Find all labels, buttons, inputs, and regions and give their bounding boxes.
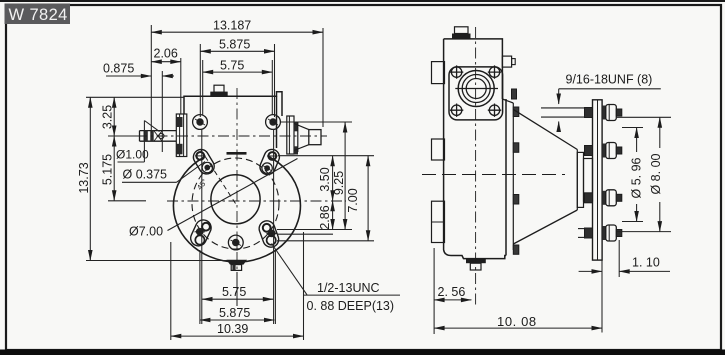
svg-text:0. 88 DEEP(13): 0. 88 DEEP(13) (307, 299, 395, 313)
flange bolt 2 y=150.5 (585, 143, 622, 159)
svg-text:10.39: 10.39 (217, 322, 248, 336)
UL boss bolt washer (202, 162, 212, 172)
rear rim line (512, 103, 514, 250)
dim 5.75 line (203, 71, 273, 73)
svg-text:1. 10: 1. 10 (632, 256, 660, 270)
label 0.375 underline and leader (122, 181, 177, 183)
svg-text:7.00: 7.00 (346, 188, 360, 212)
svg-text:5.75: 5.75 (220, 59, 244, 73)
svg-text:0.875: 0.875 (103, 62, 134, 76)
small right tab (512, 89, 517, 99)
dim 10.39 (171, 335, 304, 337)
side horizontal center line (422, 174, 565, 176)
side vertical center line (475, 27, 477, 306)
dim 5.75 bottom (202, 298, 273, 300)
bolt circle dashed (192, 158, 279, 249)
right top nub (502, 56, 511, 67)
ext lines 5.875 (199, 44, 201, 117)
svg-text:9.25: 9.25 (332, 171, 346, 195)
top-right bolt (269, 118, 276, 125)
dim dia 5.96 (636, 128, 638, 153)
flange outer ellipse (gap at top between bosses) (173, 157, 300, 263)
breather base front (210, 92, 227, 97)
side body outline (444, 39, 506, 259)
right plate dark bottom (294, 146, 298, 154)
dim 7.00 (367, 156, 369, 241)
top-left bolt (196, 118, 203, 125)
dim 10.08 (434, 327, 602, 329)
UR boss small hole (268, 152, 276, 160)
flange bolt 3 y=197.8 (585, 190, 622, 206)
label 1.00 underline and riser (118, 161, 145, 163)
right plate dark top (294, 123, 298, 132)
svg-text:13.187: 13.187 (213, 19, 251, 33)
UL boss small hole (196, 152, 204, 160)
svg-text:Ø1.00: Ø1.00 (116, 148, 149, 162)
breather cap front (214, 85, 224, 92)
45deg dashed diagonal (199, 147, 236, 204)
rim bolt tabs (513, 107, 519, 117)
bolt axis lines (201, 129, 203, 324)
ext lines 5.75 (202, 60, 204, 115)
side breather base (452, 34, 471, 39)
right shaft taper neck (294, 122, 309, 152)
LL washer bolt (195, 235, 204, 244)
center bore (211, 175, 260, 224)
svg-text:Ø 5. 96: Ø 5. 96 (629, 157, 643, 198)
9/16 down leader (558, 89, 560, 104)
side ext y=219 (622, 221, 643, 223)
left shaft small circle (159, 133, 164, 138)
bottom stud lines (578, 228, 585, 230)
svg-text:Ø 0.375: Ø 0.375 (123, 168, 168, 182)
side front flange square (449, 67, 503, 120)
top stud lines (541, 107, 585, 109)
dim 0.875 right segment (162, 75, 174, 77)
center line below plug (236, 272, 238, 306)
top scan edge (0, 0, 725, 2)
side ext y=130.3 (622, 127, 643, 129)
flange square bolts (450, 65, 501, 117)
upper-right slotted boss (258, 147, 282, 177)
left bearing flange plate (176, 114, 187, 157)
bottom center bolt washer (228, 235, 243, 250)
svg-text:10. 08: 10. 08 (497, 314, 537, 329)
ext x=619.2 (618, 240, 620, 277)
dim 13.187 line (151, 31, 323, 33)
right ext y=155.7 (278, 155, 374, 157)
bottom ext x=303.5 (303, 232, 305, 340)
dim 9.25 (344, 122, 346, 230)
svg-text:2.86: 2.86 (318, 205, 332, 229)
svg-text:Ø 8. 00: Ø 8. 00 (649, 153, 663, 194)
ext line x=323 right end (322, 28, 324, 127)
dim 1.10 (579, 270, 602, 272)
dim 2.06 line (151, 61, 181, 63)
LR boss ring hole (263, 224, 271, 232)
svg-text:3.50: 3.50 (318, 167, 332, 191)
upper-left slotted boss (191, 147, 217, 177)
dim 3.25 (113, 97, 115, 136)
ext y=136 left (108, 135, 140, 137)
cone upper (513, 109, 577, 149)
side ext y=231.6 (617, 231, 671, 233)
left tab 3 (432, 201, 445, 242)
dim 2.86 (332, 201, 334, 230)
cone lower (513, 210, 577, 244)
bottom black strip (0, 350, 725, 355)
svg-text:1/2-13UNC: 1/2-13UNC (317, 281, 380, 295)
9/16 up leader (558, 122, 560, 130)
UR boss bolt washer (262, 163, 272, 173)
lower-right slotted boss (257, 219, 281, 250)
right ext y=122 (281, 121, 352, 123)
rear flange plate (593, 100, 603, 260)
hub (577, 152, 583, 207)
flange bolt 4 y=233 (585, 225, 622, 241)
top-right bolt washer (266, 115, 281, 130)
right shaft end block (309, 130, 321, 145)
ext line 2.06 right (180, 58, 182, 114)
leader 1/2-13UNC (272, 244, 308, 295)
LL boss dark bolt (196, 228, 204, 236)
side breather cap (455, 27, 469, 34)
front horizontal main center line (167, 200, 346, 202)
leader dia 7.00 (168, 159, 298, 231)
dim 5.875 line (200, 50, 274, 52)
top-left bolt washer (193, 115, 208, 130)
left shaft (140, 130, 177, 132)
right bearing flange plate (287, 116, 294, 154)
svg-text:W 7824: W 7824 (9, 6, 68, 24)
left tab 1 (432, 62, 445, 84)
svg-text:5.75: 5.75 (222, 285, 246, 299)
svg-text:45°: 45° (195, 177, 209, 191)
left ext y=260.5 (86, 260, 227, 262)
dim 3.50 (332, 156, 334, 201)
dim dia 8.00 (659, 117, 661, 148)
right ext y=230 (277, 229, 352, 231)
center cross line (455, 88, 498, 90)
ext x=602 (601, 261, 603, 333)
ext y=200.8 left (108, 200, 146, 202)
front vertical center line (236, 88, 238, 272)
ext x=434.1 (433, 248, 435, 334)
svg-text:2.06: 2.06 (154, 47, 178, 61)
flange bolt 1 y=112.5 (585, 105, 622, 121)
shaft concentric circles (458, 71, 494, 107)
side drain plug (466, 259, 486, 264)
LR washer bolt (267, 236, 276, 245)
svg-text:3.25: 3.25 (100, 105, 114, 129)
body right edge lower (276, 96, 278, 148)
svg-text:2. 56: 2. 56 (438, 285, 466, 299)
right ext y=237.5 (277, 240, 374, 242)
svg-text:9/16-18UNF (8): 9/16-18UNF (8) (566, 73, 653, 87)
dim 5.875 bottom (200, 319, 275, 321)
front horizontal shaft center line (136, 135, 327, 137)
dim 0.875 left segment (106, 75, 151, 77)
left plate dark top (176, 117, 182, 127)
svg-text:5.875: 5.875 (219, 306, 250, 320)
svg-text:Ø7.00: Ø7.00 (129, 225, 163, 239)
dim 13.73 (89, 97, 91, 260)
body top edge (184, 92, 282, 116)
left shaft hatch blocks (144, 131, 148, 142)
title block W7824 (5, 4, 71, 25)
left ext y=97.3 (86, 96, 184, 98)
svg-text:13.73: 13.73 (77, 162, 91, 193)
left plate dark bottom (176, 144, 182, 155)
LL boss ring hole (202, 223, 210, 231)
ext line x=162.3 (161, 71, 163, 152)
bottom ext x=170.8 (170, 242, 172, 340)
dim 5.175 (113, 136, 115, 201)
ext line x=151.3 shaft end (150, 25, 152, 133)
dim 2.56 (434, 299, 471, 301)
lower-left slotted boss (188, 217, 214, 248)
svg-text:5.875: 5.875 (219, 38, 250, 52)
label 9/16 underline (559, 88, 661, 90)
side ext y=117.3 (617, 116, 671, 118)
svg-text:5.175: 5.175 (100, 154, 114, 185)
bottom drain plug front (227, 260, 248, 265)
left tab 2 (432, 139, 445, 160)
LR boss dark bolt (268, 230, 276, 238)
bolt circle top tick (227, 152, 247, 155)
